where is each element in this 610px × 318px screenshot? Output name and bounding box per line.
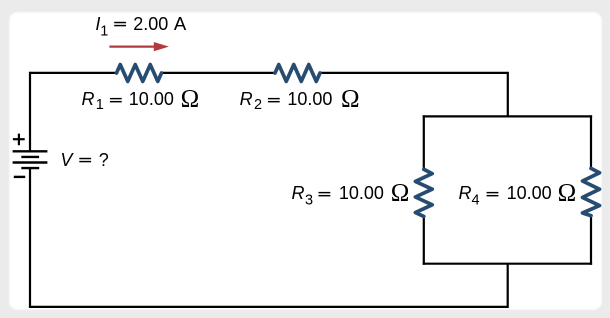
svg-text:R: R bbox=[292, 183, 305, 203]
resistor R2 bbox=[275, 65, 320, 82]
svg-text:3: 3 bbox=[305, 192, 313, 208]
wire: top wire left segment bbox=[30, 72, 117, 74]
svg-text:1: 1 bbox=[96, 97, 104, 113]
resistor R4 bbox=[583, 168, 600, 215]
battery minus sign bbox=[14, 176, 25, 178]
svg-text:Ω: Ω bbox=[391, 179, 410, 206]
wire: box right edge lower bbox=[590, 216, 592, 265]
wire: left wire upper bbox=[29, 72, 31, 152]
svg-text:R: R bbox=[82, 89, 95, 109]
current arrow I1 bbox=[109, 42, 168, 51]
svg-text:10.00: 10.00 bbox=[129, 89, 174, 109]
wire: bottom right riser bbox=[507, 264, 509, 308]
label V = ? bbox=[60, 150, 108, 170]
wire: box left edge upper bbox=[423, 115, 425, 169]
resistor R3 bbox=[415, 169, 432, 216]
svg-text:Ω: Ω bbox=[341, 85, 360, 112]
svg-text:A: A bbox=[174, 13, 187, 34]
svg-text:Ω: Ω bbox=[181, 85, 200, 112]
svg-text:10.00: 10.00 bbox=[287, 89, 332, 109]
label R1 = 10.00 ohm bbox=[82, 85, 200, 113]
wire: left wire lower bbox=[29, 168, 31, 307]
label R4 = 10.00 ohm bbox=[459, 179, 577, 208]
svg-text:10.00: 10.00 bbox=[339, 183, 384, 203]
svg-text:R: R bbox=[459, 183, 472, 203]
wire: box left edge lower bbox=[423, 216, 425, 264]
battery V plates bbox=[13, 151, 48, 168]
svg-text:4: 4 bbox=[472, 192, 480, 208]
svg-text:V: V bbox=[60, 150, 74, 170]
wire: bottom wire bbox=[29, 306, 508, 308]
label R2 = 10.00 ohm bbox=[240, 85, 360, 113]
svg-text:2: 2 bbox=[254, 97, 262, 113]
svg-text:10.00: 10.00 bbox=[507, 183, 552, 203]
node box: parallel combination rectangle top edge bbox=[423, 115, 592, 117]
resistor R1 bbox=[117, 65, 162, 82]
wire: top wire right segment + drop to box bbox=[320, 73, 508, 117]
label R3 = 10.00 ohm bbox=[292, 179, 410, 208]
node box: bottom edge bbox=[423, 263, 592, 265]
wire: box right edge upper bbox=[590, 115, 592, 168]
svg-text:Ω: Ω bbox=[558, 179, 577, 206]
svg-text:?: ? bbox=[99, 150, 109, 170]
wire: top wire middle segment bbox=[162, 72, 276, 74]
svg-text:R: R bbox=[240, 89, 253, 109]
battery plus sign bbox=[13, 134, 25, 146]
svg-text:2.00: 2.00 bbox=[133, 14, 168, 34]
label I1 = 2.00 A bbox=[95, 13, 186, 40]
svg-text:1: 1 bbox=[100, 24, 108, 40]
